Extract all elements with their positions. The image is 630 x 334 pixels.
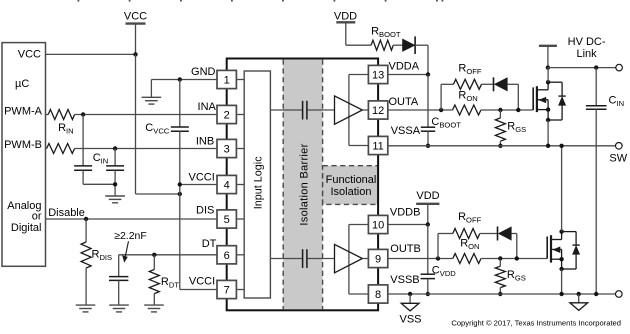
- label VSSB: [390, 274, 419, 286]
- capacitor C_IN (DC link): [586, 106, 607, 109]
- diode D_BOOT: [403, 36, 416, 54]
- wire diode B down: [511, 234, 517, 259]
- VDD supply bar (bottom): [416, 203, 439, 205]
- wire Q1 source to SW: [547, 120, 549, 146]
- resistor R_OFF (B): [453, 229, 480, 239]
- VCC supply label: [124, 11, 147, 23]
- wire DT: [119, 254, 217, 256]
- capacitor C_IN (PWM-A): [74, 166, 92, 170]
- node GND/CVCC junction: [178, 77, 182, 81]
- wire C_IN-A upper: [82, 115, 84, 166]
- body diode Q2: [562, 232, 580, 269]
- uC label PWM-B: [4, 139, 42, 151]
- wire C_IN right upper: [595, 68, 597, 106]
- wire INB: [75, 148, 217, 150]
- wire INA: [75, 114, 217, 116]
- label R_OFF (B): [458, 211, 481, 225]
- wire C_VDD lower: [427, 279, 429, 294]
- diode D_OFF (B): [498, 227, 512, 241]
- VDD supply label (top): [334, 11, 357, 23]
- wire buffer B output: [362, 258, 368, 260]
- resistor R_IN (PWM-A): [48, 110, 74, 120]
- wire VDD stem (top): [346, 22, 371, 45]
- isolation capacitor B: [303, 249, 307, 268]
- label C_BOOT: [431, 116, 461, 130]
- svg-text:≥2.2nF: ≥2.2nF: [114, 230, 147, 242]
- body diode Q1: [548, 82, 566, 120]
- label Functional Isolation: [326, 174, 377, 198]
- wire iso cap A to buffer A: [308, 109, 335, 111]
- svg-text:Isolation: Isolation: [331, 186, 372, 198]
- wire PWM-A left: [46, 114, 49, 116]
- wire OUTB: [388, 258, 453, 260]
- svg-text:Functional: Functional: [326, 174, 377, 186]
- svg-text:VSS: VSS: [399, 313, 421, 325]
- wire C_VCC lower: [179, 131, 181, 194]
- wire VSSA-SW rail: [388, 145, 616, 147]
- node Q2 source: [559, 267, 563, 271]
- uC label PWM-A: [4, 105, 43, 117]
- isolation capacitor A: [303, 101, 307, 120]
- wire R_GS B lower: [499, 288, 501, 294]
- wire R_GS B upper: [499, 259, 501, 267]
- wire C_VCC upper: [179, 80, 181, 128]
- label VDDA: [389, 60, 420, 72]
- VDD supply bar (top): [336, 21, 355, 23]
- pin 8 box: [368, 285, 387, 303]
- node C_VDD/VSSB junction: [426, 292, 430, 296]
- wire VCC vertical down: [135, 54, 137, 194]
- node VCC junction: [133, 52, 137, 56]
- label R_ON (A): [458, 89, 477, 103]
- pin 9 box: [368, 249, 387, 267]
- wire OUTA: [388, 109, 453, 111]
- node INA junction: [81, 112, 85, 116]
- svg-text:GND: GND: [191, 66, 216, 78]
- label R_ON (B): [460, 238, 479, 252]
- wire R_DT lower: [153, 294, 155, 306]
- isolation barrier column: [283, 60, 322, 310]
- wire C_IN right lower: [595, 109, 597, 294]
- wire R_GS A upper: [499, 110, 501, 118]
- wire 2.2nF lower: [118, 280, 120, 305]
- label R_GS (A): [507, 121, 526, 135]
- svg-text:VSSB: VSSB: [390, 274, 419, 286]
- node Q1 stub junction: [546, 107, 550, 111]
- pin 6 box: [217, 246, 236, 264]
- node R_GS A bottom: [498, 144, 502, 148]
- svg-text:VCCI: VCCI: [189, 275, 215, 287]
- capacitor C_VCC: [171, 127, 189, 131]
- resistor R_ON (A): [453, 105, 481, 115]
- wire R_OFF to diode B: [480, 233, 498, 235]
- node R_OFF branch B: [436, 256, 440, 260]
- wire GND pin1: [151, 79, 216, 81]
- node Q1 source on rail: [546, 144, 550, 148]
- wire OUTA to gate: [481, 109, 533, 111]
- node Q2 drain on SW rail: [559, 144, 563, 148]
- label INA: [198, 101, 217, 113]
- svg-text:DIS: DIS: [196, 204, 214, 216]
- wire input logic to iso cap A: [270, 109, 302, 111]
- resistor R_DT: [149, 270, 159, 294]
- capacitor C_IN (PWM-B): [106, 166, 124, 170]
- op-amp buffer B: [335, 244, 363, 272]
- svg-text:OUTB: OUTB: [390, 243, 421, 255]
- label C_VDD: [432, 264, 457, 278]
- svg-text:VDDA: VDDA: [389, 60, 420, 72]
- wire GND drop: [150, 80, 152, 98]
- svg-text:9: 9: [375, 254, 381, 266]
- ground under R_DT: [144, 305, 164, 312]
- node DT junction: [152, 253, 156, 257]
- pin 2 box: [217, 105, 236, 123]
- wire buffer A bias: [349, 75, 369, 146]
- svg-text:13: 13: [372, 70, 384, 82]
- wire C_BOOT upper: [427, 75, 429, 128]
- svg-text:VCC: VCC: [124, 11, 147, 23]
- wire PWM-B left: [45, 148, 48, 150]
- terminal SW: [616, 143, 623, 150]
- wire VDDB pin10: [388, 224, 428, 226]
- node Q2 stub junction: [559, 257, 563, 261]
- wire OUTB to gate: [481, 258, 547, 260]
- label INB: [196, 135, 214, 147]
- label Isolation Barrier: [299, 143, 311, 225]
- node VDDA junction: [426, 72, 430, 76]
- uC label uC: [15, 78, 29, 90]
- wire iso cap B to buffer B: [308, 258, 335, 260]
- node power ground junction: [577, 292, 581, 296]
- label VSS: [399, 313, 421, 325]
- label R_DT: [161, 276, 179, 290]
- pin 13 box: [368, 65, 387, 83]
- label R_DIS: [92, 249, 113, 263]
- resistor R_BOOT: [371, 40, 393, 50]
- wire Q1 drain to HV: [547, 68, 549, 83]
- power ground triangle: [570, 294, 588, 310]
- label C_IN: [93, 152, 109, 166]
- wire buffer A output: [362, 109, 368, 111]
- wire HV rail: [548, 67, 616, 69]
- svg-text:INB: INB: [196, 135, 214, 147]
- capacitor C_BOOT: [421, 127, 435, 131]
- wire HV stem: [547, 46, 549, 68]
- wire R_OFF branch A up: [441, 84, 453, 110]
- svg-text:Input Logic: Input Logic: [253, 156, 265, 209]
- svg-text:7: 7: [224, 285, 230, 297]
- pin 7 box: [217, 280, 236, 298]
- svg-text:2: 2: [224, 110, 230, 122]
- label HV DC-Link: [568, 36, 606, 60]
- label 2.2nF: [114, 230, 147, 242]
- wire VCC to C_VCC bottom: [136, 193, 180, 195]
- wire VSSB rail: [388, 293, 616, 295]
- HV DC-Link bar: [539, 45, 557, 47]
- diode D_OFF (A): [494, 77, 508, 91]
- resistor R_GS (B): [495, 266, 505, 287]
- node Q2 drain: [559, 229, 563, 233]
- pin 3 box: [217, 139, 236, 157]
- label Disable: [48, 207, 85, 219]
- node R_OFF branch A: [439, 108, 443, 112]
- op-amp buffer A: [335, 96, 363, 124]
- node INB junction: [113, 146, 117, 150]
- node VCC/CVCC junction: [178, 192, 182, 196]
- node VSS triangle junction: [408, 292, 412, 296]
- node Q2 source on rail: [559, 292, 563, 296]
- node HV C_IN junction: [594, 65, 598, 69]
- svg-text:Copyright © 2017, Texas Instru: Copyright © 2017, Texas Instruments Inco…: [451, 319, 621, 328]
- node R_GS B top: [498, 256, 502, 260]
- node HV drain junction: [546, 65, 550, 69]
- label VDDB: [390, 206, 421, 218]
- label VCCI pin7: [189, 275, 215, 287]
- node diode A rejoin: [516, 108, 520, 112]
- wire R_DIS lower: [85, 268, 87, 305]
- ground under C_IN: [105, 196, 125, 203]
- node R_GS B bottom: [498, 292, 502, 296]
- wire R_DT upper: [153, 255, 155, 270]
- svg-text:µC: µC: [15, 78, 29, 90]
- label R_IN: [58, 122, 74, 136]
- wire C_VDD upper: [427, 225, 429, 275]
- svg-text:VDD: VDD: [334, 11, 357, 23]
- label GND: [191, 66, 216, 78]
- label R_OFF (A): [458, 62, 481, 76]
- svg-text:Isolation Barrier: Isolation Barrier: [299, 143, 311, 225]
- wire C_IN-B lower: [114, 170, 116, 196]
- ground under R_DIS: [76, 305, 96, 312]
- copyright notice: [451, 319, 621, 328]
- caption remnant (cropped text at top): [78, 0, 444, 2]
- label R_BOOT: [371, 26, 401, 40]
- transistor Q1 (high side): [533, 82, 548, 120]
- svg-text:3: 3: [224, 144, 230, 156]
- svg-text:12: 12: [372, 105, 384, 117]
- wire Q2 drain to SW: [561, 146, 563, 232]
- svg-text:PWM-A: PWM-A: [4, 105, 43, 117]
- svg-text:Digital: Digital: [11, 222, 42, 234]
- terminal HV DC-Link: [616, 64, 623, 71]
- VCC supply bar: [126, 22, 146, 24]
- wire VDD stem (bottom): [427, 204, 429, 225]
- wire diode to VDDA corner: [415, 45, 428, 74]
- wire 2.2nF upper: [118, 255, 120, 277]
- svg-text:6: 6: [224, 250, 230, 262]
- label R_GS (B): [507, 269, 526, 283]
- node VCCI pin4 tap: [178, 182, 182, 186]
- resistor R_GS (A): [495, 118, 505, 141]
- node DIS junction: [84, 217, 88, 221]
- VSS ground triangle: [401, 294, 419, 311]
- svg-text:VSSA: VSSA: [391, 125, 421, 137]
- resistor R_ON (B): [453, 254, 481, 264]
- resistor R_DIS: [81, 242, 91, 268]
- svg-text:4: 4: [224, 180, 230, 192]
- microcontroller box: [2, 43, 46, 267]
- wire VCC stem: [135, 24, 137, 55]
- svg-text:8: 8: [375, 289, 381, 301]
- svg-text:Link: Link: [577, 48, 598, 60]
- node VDDB junction: [426, 222, 430, 226]
- svg-text:10: 10: [372, 220, 384, 232]
- label DT: [202, 238, 217, 250]
- svg-text:OUTA: OUTA: [389, 96, 419, 108]
- ground GND symbol: [142, 97, 162, 104]
- label OUTA: [389, 96, 419, 108]
- node Q1 drain: [546, 80, 550, 84]
- wire pin stubs to input logic: [236, 80, 244, 290]
- svg-text:INA: INA: [198, 101, 217, 113]
- capacitor 2.2nF: [109, 277, 128, 281]
- IC outline U1: [227, 59, 378, 311]
- terminal bottom right: [616, 291, 623, 298]
- label SW: [609, 152, 627, 164]
- label VSSA: [391, 125, 421, 137]
- svg-text:HV DC-: HV DC-: [568, 36, 606, 48]
- wire input logic to iso cap B: [270, 258, 302, 260]
- wire R_GS A lower: [499, 141, 501, 146]
- ground under 2.2nF cap: [109, 305, 129, 312]
- svg-text:SW: SW: [609, 152, 627, 164]
- pin 4 box: [217, 175, 236, 193]
- VDD supply label (bottom): [416, 190, 439, 202]
- label Input Logic: [253, 156, 265, 209]
- wire R_BOOT to diode: [393, 44, 402, 46]
- svg-text:5: 5: [224, 214, 230, 226]
- node C_IN bottom: [594, 292, 598, 296]
- wire buffer B bias: [349, 225, 369, 295]
- pin 12 box: [368, 101, 387, 119]
- svg-text:or: or: [32, 210, 42, 222]
- label VCCI pin4: [189, 172, 215, 184]
- wire R_OFF branch B up: [438, 234, 453, 259]
- uC label VCC: [18, 49, 41, 61]
- svg-text:DT: DT: [202, 238, 217, 250]
- svg-text:VCCI: VCCI: [189, 172, 215, 184]
- wire VCCI pin4: [180, 184, 217, 186]
- wire C_IN-B upper: [114, 149, 116, 166]
- wire VDDA pin13: [388, 74, 428, 76]
- svg-text:VDDB: VDDB: [390, 206, 421, 218]
- capacitor C_VDD: [421, 274, 435, 278]
- pin 11 box: [368, 136, 387, 154]
- wire VCCI down to pin7: [179, 194, 181, 290]
- node C_IN ground junction: [113, 182, 117, 186]
- pin 5 box: [217, 210, 236, 228]
- wire C_IN-A lower: [83, 170, 115, 184]
- pin 10 box: [368, 215, 387, 233]
- wire DIS: [46, 218, 217, 220]
- wire VCCI pin7: [180, 289, 217, 291]
- pin 1 box: [217, 70, 236, 88]
- svg-text:Disable: Disable: [48, 207, 85, 219]
- wire uC VCC to rail: [46, 53, 136, 55]
- node diode B rejoin: [515, 256, 519, 260]
- resistor R_IN (PWM-B): [47, 144, 75, 154]
- transistor Q2 (low side): [547, 232, 561, 269]
- node R_GS A top: [498, 108, 502, 112]
- svg-text:VDD: VDD: [416, 190, 439, 202]
- resistor R_OFF (A): [453, 79, 481, 89]
- svg-text:11: 11: [372, 141, 383, 153]
- wire C_BOOT lower: [427, 131, 429, 146]
- arrow to 2.2nF cap: [122, 241, 128, 262]
- functional isolation box: [323, 166, 379, 205]
- label C_VCC: [145, 122, 170, 136]
- label OUTB: [390, 243, 421, 255]
- svg-text:1: 1: [224, 75, 230, 87]
- wire diode A down: [507, 84, 518, 110]
- uC label Analog or Digital: [7, 200, 42, 234]
- wire R_DIS upper: [85, 219, 87, 242]
- node C_BOOT/VSSA junction: [426, 144, 430, 148]
- label C_IN (DC link): [609, 94, 625, 108]
- wire R_OFF to diode A: [482, 83, 494, 85]
- wire Q2 source to rail: [561, 269, 563, 294]
- svg-text:PWM-B: PWM-B: [4, 139, 42, 151]
- node Q1 source: [546, 118, 550, 122]
- svg-text:VCC: VCC: [18, 49, 41, 61]
- label DIS: [196, 204, 214, 216]
- input logic box: [244, 71, 270, 298]
